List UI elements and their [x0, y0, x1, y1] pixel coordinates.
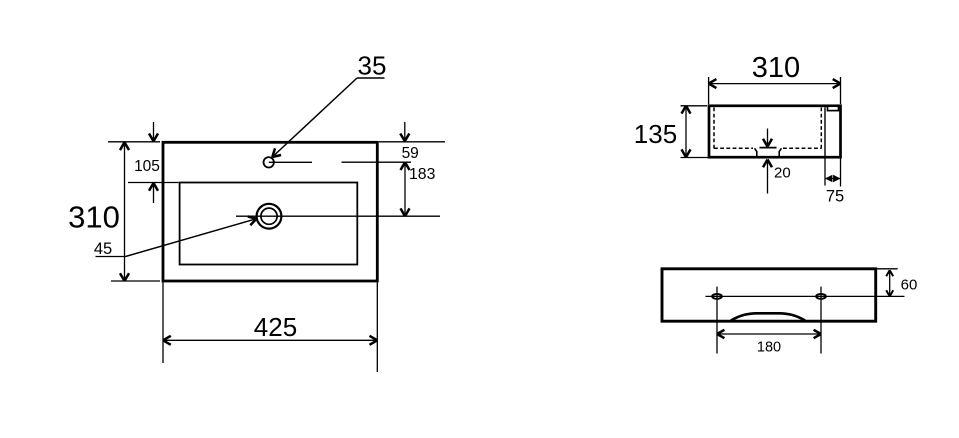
- svg-text:310: 310: [752, 52, 800, 84]
- svg-text:45: 45: [94, 240, 112, 258]
- svg-text:180: 180: [757, 340, 781, 356]
- svg-text:310: 310: [68, 200, 120, 235]
- svg-text:105: 105: [134, 158, 160, 175]
- svg-text:60: 60: [901, 277, 918, 294]
- svg-text:135: 135: [634, 119, 677, 149]
- svg-text:35: 35: [358, 51, 387, 81]
- svg-text:20: 20: [774, 165, 791, 182]
- svg-text:59: 59: [402, 145, 419, 162]
- svg-text:75: 75: [826, 188, 844, 206]
- svg-text:425: 425: [254, 312, 297, 342]
- svg-text:183: 183: [409, 166, 436, 183]
